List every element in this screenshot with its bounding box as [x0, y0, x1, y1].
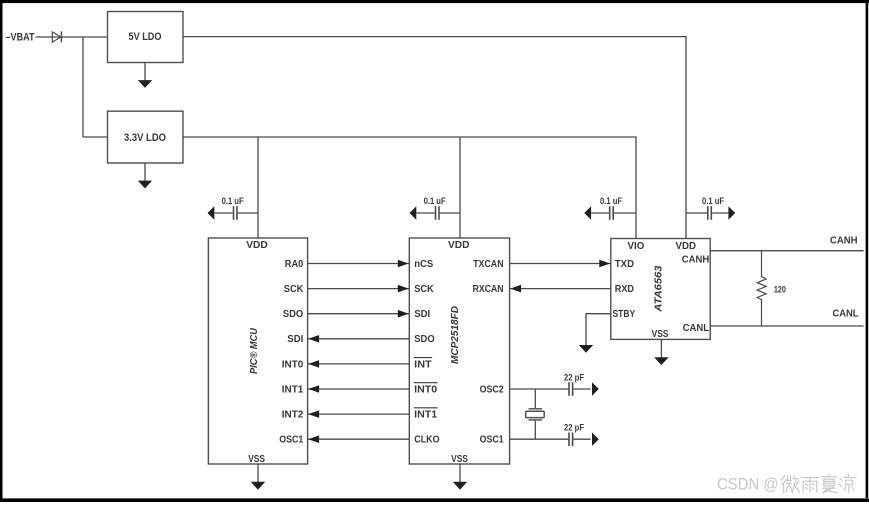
- svg-text:nCS: nCS: [414, 258, 433, 270]
- svg-text:VDD: VDD: [676, 240, 697, 252]
- svg-text:OSC2: OSC2: [480, 383, 504, 395]
- svg-text:INT0: INT0: [282, 358, 304, 370]
- svg-text:OSC1: OSC1: [279, 434, 303, 446]
- svg-text:INT2: INT2: [282, 409, 304, 421]
- svg-text:SCK: SCK: [284, 283, 304, 295]
- svg-text:VSS: VSS: [652, 328, 669, 340]
- svg-text:TXD: TXD: [615, 258, 635, 270]
- svg-text:CANL: CANL: [683, 322, 710, 334]
- svg-text:3.3V LDO: 3.3V LDO: [124, 132, 166, 144]
- svg-text:SCK: SCK: [414, 283, 434, 295]
- svg-text:CANH: CANH: [830, 235, 858, 247]
- svg-text:VSS: VSS: [248, 453, 265, 465]
- svg-text:INT0: INT0: [414, 383, 437, 395]
- svg-text:SDO: SDO: [414, 333, 435, 345]
- svg-text:RXD: RXD: [615, 283, 635, 295]
- svg-text:CSDN @: CSDN @: [717, 475, 779, 494]
- svg-text:INT1: INT1: [414, 409, 437, 421]
- svg-text:0.1 uF: 0.1 uF: [702, 196, 724, 206]
- svg-text:RXCAN: RXCAN: [473, 283, 504, 295]
- svg-text:22 pF: 22 pF: [564, 422, 584, 432]
- svg-text:22 pF: 22 pF: [564, 372, 584, 382]
- svg-text:INT1: INT1: [282, 383, 304, 395]
- svg-text:SDI: SDI: [287, 333, 303, 345]
- svg-text:SDO: SDO: [283, 308, 304, 320]
- svg-text:VDD: VDD: [448, 239, 470, 251]
- svg-text:0.1 uF: 0.1 uF: [600, 196, 622, 206]
- svg-text:INT: INT: [414, 358, 432, 370]
- svg-text:–VBAT: –VBAT: [6, 31, 35, 43]
- svg-text:VIO: VIO: [628, 240, 645, 252]
- svg-text:0.1 uF: 0.1 uF: [424, 196, 446, 206]
- svg-text:0.1 uF: 0.1 uF: [222, 196, 244, 206]
- svg-text:CLKO: CLKO: [414, 434, 440, 446]
- svg-text:MCP2518FD: MCP2518FD: [449, 306, 461, 364]
- svg-text:120: 120: [774, 285, 786, 295]
- svg-text:OSC1: OSC1: [480, 434, 504, 446]
- svg-text:TXCAN: TXCAN: [473, 258, 504, 270]
- svg-text:VDD: VDD: [246, 239, 268, 251]
- svg-text:STBY: STBY: [613, 308, 636, 320]
- svg-text:PIC® MCU: PIC® MCU: [248, 328, 260, 374]
- svg-text:CANL: CANL: [833, 308, 860, 320]
- svg-text:ATA6563: ATA6563: [653, 265, 665, 312]
- svg-text:CANH: CANH: [682, 253, 710, 265]
- svg-text:VSS: VSS: [451, 453, 468, 465]
- svg-text:RA0: RA0: [285, 258, 304, 270]
- svg-text:SDI: SDI: [414, 308, 430, 320]
- svg-text:5V LDO: 5V LDO: [129, 31, 162, 43]
